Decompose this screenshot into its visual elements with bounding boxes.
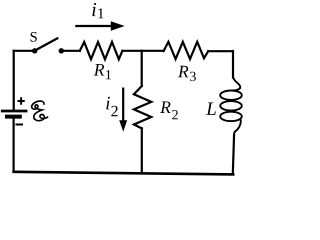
- wire: middle branch top (node to R2): [141, 51, 143, 86]
- wire: R3 to top-right corner: [208, 50, 232, 52]
- current arrow i2: [119, 88, 127, 132]
- wire: left vertical lower (battery bottom plate to bottom-left corner): [13, 119, 15, 172]
- wire: top-left corner to switch left contact: [14, 50, 33, 52]
- coil loop 1: [220, 91, 242, 100]
- label R1 subscript 1: [106, 70, 111, 79]
- wire: middle branch bottom (R2 to bottom node): [141, 128, 143, 173]
- wire: right vertical upper (corner to inductor): [232, 51, 234, 78]
- wire: left vertical upper (corner to battery top plate): [13, 51, 15, 110]
- label i2 subscript 2: [111, 106, 117, 117]
- switch blade: [35, 38, 58, 50]
- label R1 (R): [94, 64, 105, 76]
- resistor R3: [164, 42, 209, 59]
- resistor R1: [80, 42, 123, 59]
- label S: [31, 32, 37, 42]
- switch contact dot right: [59, 48, 64, 53]
- wire: bottom horizontal: [14, 172, 234, 175]
- label i1 (i): [92, 3, 96, 16]
- label R2 subscript 2: [172, 110, 178, 119]
- coil exit hook: [234, 119, 241, 134]
- script-E EMF symbol: [32, 101, 48, 121]
- battery short thick plate (negative): [5, 115, 22, 119]
- current arrow i1: [75, 21, 124, 31]
- label R2 (R): [160, 102, 171, 114]
- battery long plate (positive): [1, 110, 28, 113]
- switch S: [32, 38, 64, 53]
- plus sign: [18, 97, 25, 104]
- inductor L: [220, 77, 242, 175]
- wire: right vertical lower (inductor to bottom-right corner): [233, 134, 234, 174]
- battery EMF source: [1, 97, 48, 124]
- label R3 subscript 3: [190, 72, 196, 81]
- wire: R1 to node then to R3: [122, 50, 163, 52]
- label R3 (R): [178, 66, 189, 78]
- label i1 subscript 1: [98, 8, 103, 18]
- label L: [206, 103, 216, 115]
- coil loop 3: [220, 112, 242, 121]
- label i2 (i): [106, 97, 110, 110]
- coil loop 2: [220, 101, 242, 110]
- wire: switch right contact to R1: [63, 50, 80, 52]
- resistor R2: [134, 86, 151, 128]
- switch contact dot left: [32, 48, 37, 53]
- coil entry hook: [231, 77, 240, 91]
- minus sign: [16, 124, 24, 126]
